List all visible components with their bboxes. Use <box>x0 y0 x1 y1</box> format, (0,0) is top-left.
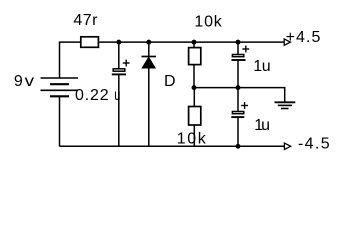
wire diode branch upper <box>148 42 150 56</box>
wire 10k bottom to bottom rail <box>193 125 195 146</box>
junction top rail at 0.22u <box>116 40 121 45</box>
wire 0.22u branch upper <box>118 42 120 68</box>
junction bottom rail at 1u <box>236 144 241 149</box>
svg-text:9: 9 <box>14 73 23 90</box>
svg-text:47r: 47r <box>73 12 98 29</box>
svg-text:D: D <box>164 73 176 90</box>
svg-text:u: u <box>114 87 120 104</box>
ground <box>275 102 296 108</box>
junction top rail at 10k <box>192 40 197 45</box>
svg-text:1u: 1u <box>253 58 270 75</box>
resistor R2 10k (top) <box>189 48 201 65</box>
svg-text:+4.5: +4.5 <box>286 29 321 46</box>
wire 10k top branch <box>193 42 195 48</box>
wire 1u top branch <box>237 42 239 54</box>
wire top-left from battery to resistor <box>60 42 81 78</box>
arrow output -4.5 <box>284 143 290 149</box>
capacitor C3 1u (bottom) <box>231 102 248 117</box>
wire 10k top to middle rail <box>193 65 195 88</box>
resistor R3 10k (bottom) <box>189 107 201 126</box>
svg-text:1u: 1u <box>254 117 270 134</box>
wire top rail <box>99 41 284 43</box>
wire battery minus to bottom rail <box>59 96 61 146</box>
arrow output +4.5 <box>284 39 290 45</box>
wire bottom rail <box>60 145 285 147</box>
svg-text:0.22: 0.22 <box>75 87 109 104</box>
wire 1u top to middle rail <box>237 60 239 88</box>
junction middle rail at 1u <box>236 85 241 90</box>
wire middle rail and ground drop <box>194 88 285 103</box>
capacitor C1 0.22u <box>112 60 130 75</box>
resistor R1 47r <box>81 37 99 48</box>
wire diode branch lower <box>148 68 150 146</box>
svg-text:v: v <box>25 73 34 90</box>
diode D <box>142 57 157 69</box>
wire 10k bottom branch upper <box>193 88 195 107</box>
capacitor C2 1u (top) <box>232 46 250 60</box>
battery B1 9v <box>41 78 79 96</box>
junction middle rail at 10k <box>192 85 197 90</box>
junction top rail at 1u <box>236 40 241 45</box>
wire 0.22u branch lower <box>118 74 120 146</box>
svg-text:10k: 10k <box>177 130 207 147</box>
svg-text:10k: 10k <box>194 13 222 30</box>
wire 1u bottom branch upper <box>237 88 239 112</box>
wire 1u bottom to bottom rail <box>237 117 239 146</box>
junction top rail at diode <box>146 40 151 45</box>
